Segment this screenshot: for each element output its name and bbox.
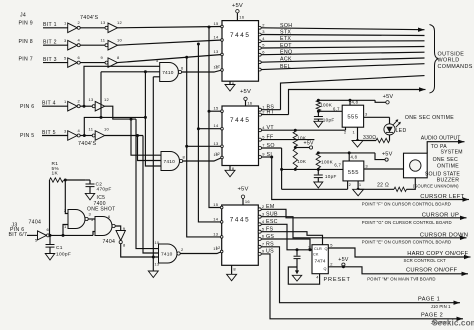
- svg-text:Q: Q: [325, 247, 328, 251]
- svg-text:HARD COPY ON/OFF: HARD COPY ON/OFF: [407, 251, 468, 257]
- svg-text:Seekic.com: Seekic.com: [432, 319, 474, 328]
- svg-text:14: 14: [214, 123, 220, 128]
- svg-text:11: 11: [101, 38, 106, 43]
- svg-text:CURSOR UP: CURSOR UP: [422, 212, 459, 218]
- svg-text:15: 15: [213, 202, 219, 207]
- svg-text:ONE SEC: ONE SEC: [433, 157, 458, 163]
- svg-text:13: 13: [101, 20, 107, 25]
- svg-text:CURSOR DOWN: CURSOR DOWN: [420, 232, 468, 238]
- svg-text:ONE SHOT: ONE SHOT: [87, 207, 116, 213]
- svg-text:C1: C1: [56, 245, 63, 251]
- svg-text:7410: 7410: [162, 70, 174, 76]
- svg-text:Q: Q: [324, 267, 327, 271]
- svg-text:WORLD: WORLD: [438, 58, 460, 64]
- svg-text:13: 13: [89, 97, 95, 102]
- svg-text:SCR CONTROL CKT: SCR CONTROL CKT: [404, 258, 447, 263]
- svg-text:12: 12: [104, 97, 110, 102]
- svg-text:12: 12: [117, 20, 123, 25]
- svg-text:10K: 10K: [297, 159, 307, 164]
- svg-text:14: 14: [213, 216, 219, 221]
- svg-text:4,8: 4,8: [351, 154, 358, 159]
- svg-text:7474: 7474: [314, 259, 325, 265]
- svg-text:J10 PIN 1: J10 PIN 1: [431, 304, 451, 309]
- svg-text:16: 16: [239, 15, 245, 20]
- svg-text:STX: STX: [280, 30, 291, 36]
- svg-text:7404: 7404: [103, 239, 116, 245]
- svg-text:+5V: +5V: [383, 94, 394, 100]
- svg-text:7445: 7445: [230, 216, 250, 223]
- svg-text:7410: 7410: [161, 251, 173, 257]
- svg-text:PIN 7: PIN 7: [19, 57, 33, 63]
- svg-text:22 Ω: 22 Ω: [377, 183, 389, 189]
- svg-text:4,8: 4,8: [352, 100, 359, 105]
- svg-text:15: 15: [214, 106, 220, 111]
- svg-text:CURSOR LEFT: CURSOR LEFT: [420, 194, 464, 200]
- svg-text:ACK: ACK: [280, 57, 292, 63]
- svg-text:100pF: 100pF: [56, 251, 71, 257]
- svg-text:ETX: ETX: [280, 36, 291, 42]
- svg-text:13: 13: [214, 141, 220, 146]
- svg-text:555: 555: [347, 114, 358, 120]
- svg-text:CLR: CLR: [314, 247, 322, 251]
- svg-text:ONE SEC ONTIME: ONE SEC ONTIME: [405, 115, 454, 121]
- svg-text:7404'S: 7404'S: [78, 141, 97, 147]
- svg-text:10: 10: [117, 38, 123, 43]
- svg-text:12: 12: [214, 65, 220, 70]
- svg-text:+5V: +5V: [237, 187, 248, 193]
- svg-text:13: 13: [213, 231, 219, 236]
- svg-text:CURSOR ON/OFF: CURSOR ON/OFF: [406, 268, 457, 274]
- svg-text:7404: 7404: [29, 219, 42, 225]
- svg-text:AUDIO OUTPUT: AUDIO OUTPUT: [421, 136, 461, 142]
- svg-text:POINT "E" ON CURSOR CONTROL BO: POINT "E" ON CURSOR CONTROL BOARD: [362, 240, 451, 245]
- svg-text:100K: 100K: [321, 160, 334, 165]
- svg-text:6,7: 6,7: [333, 107, 340, 112]
- svg-text:SOH: SOH: [280, 23, 292, 29]
- svg-text:11: 11: [89, 126, 94, 131]
- svg-text:1K: 1K: [52, 171, 59, 177]
- svg-text:13: 13: [155, 263, 160, 267]
- svg-text:PIN 5: PIN 5: [20, 133, 34, 139]
- svg-text:14: 14: [214, 35, 220, 40]
- svg-text:+5V: +5V: [232, 3, 243, 9]
- svg-text:BEL: BEL: [280, 64, 291, 70]
- svg-text:10: 10: [155, 241, 160, 245]
- svg-text:7410: 7410: [164, 159, 176, 165]
- svg-text:PIN 8: PIN 8: [19, 39, 33, 45]
- svg-text:10pF: 10pF: [325, 174, 337, 179]
- svg-text:555: 555: [348, 170, 359, 176]
- svg-text:PRESET: PRESET: [324, 277, 351, 283]
- svg-text:ENQ: ENQ: [280, 49, 292, 55]
- svg-text:+5V: +5V: [382, 152, 393, 158]
- svg-text:13: 13: [214, 49, 220, 54]
- svg-text:+5V: +5V: [240, 89, 251, 95]
- svg-text:J4: J4: [20, 13, 26, 19]
- svg-text:16: 16: [247, 101, 253, 106]
- svg-text:BIT 6/7: BIT 6/7: [9, 232, 28, 238]
- svg-text:+5V: +5V: [338, 257, 349, 263]
- svg-text:(SOURCE UNKNOWN): (SOURCE UNKNOWN): [413, 183, 459, 188]
- svg-text:10pF: 10pF: [323, 118, 335, 123]
- svg-text:16: 16: [245, 199, 251, 204]
- svg-text:SYSTEM: SYSTEM: [441, 150, 463, 156]
- svg-text:POINT "G" ON CURSOR CONTROL BO: POINT "G" ON CURSOR CONTROL BOARD: [362, 220, 452, 225]
- svg-text:EOT: EOT: [280, 43, 292, 49]
- svg-text:PIN 6: PIN 6: [20, 104, 34, 110]
- svg-text:LED: LED: [396, 128, 407, 134]
- svg-text:10: 10: [104, 126, 110, 131]
- svg-text:7445: 7445: [230, 32, 250, 39]
- svg-text:330Ω: 330Ω: [363, 135, 376, 141]
- svg-text:C2: C2: [96, 181, 103, 187]
- svg-text:12: 12: [213, 246, 219, 251]
- svg-text:ONTIME: ONTIME: [437, 163, 459, 169]
- svg-text:POINT "F" ON CURSOR CONTROL BO: POINT "F" ON CURSOR CONTROL BOARD: [362, 201, 451, 206]
- svg-text:7404'S: 7404'S: [80, 15, 99, 21]
- svg-text:OUTSIDE: OUTSIDE: [438, 52, 465, 58]
- svg-text:7445: 7445: [230, 117, 250, 124]
- svg-text:PAGE 1: PAGE 1: [418, 296, 440, 302]
- svg-text:470pF: 470pF: [97, 187, 112, 193]
- svg-text:100K: 100K: [320, 102, 333, 107]
- svg-text:+5V: +5V: [304, 141, 315, 147]
- svg-text:POINT "M" ON MAIN TVⅡ BOARD: POINT "M" ON MAIN TVⅡ BOARD: [367, 277, 435, 282]
- svg-text:12: 12: [214, 152, 220, 157]
- svg-text:PIN 9: PIN 9: [19, 21, 33, 27]
- svg-text:6,7: 6,7: [334, 163, 341, 168]
- svg-text:15: 15: [214, 21, 220, 26]
- svg-text:COMMANDS: COMMANDS: [438, 64, 473, 70]
- svg-text:CK: CK: [313, 252, 319, 256]
